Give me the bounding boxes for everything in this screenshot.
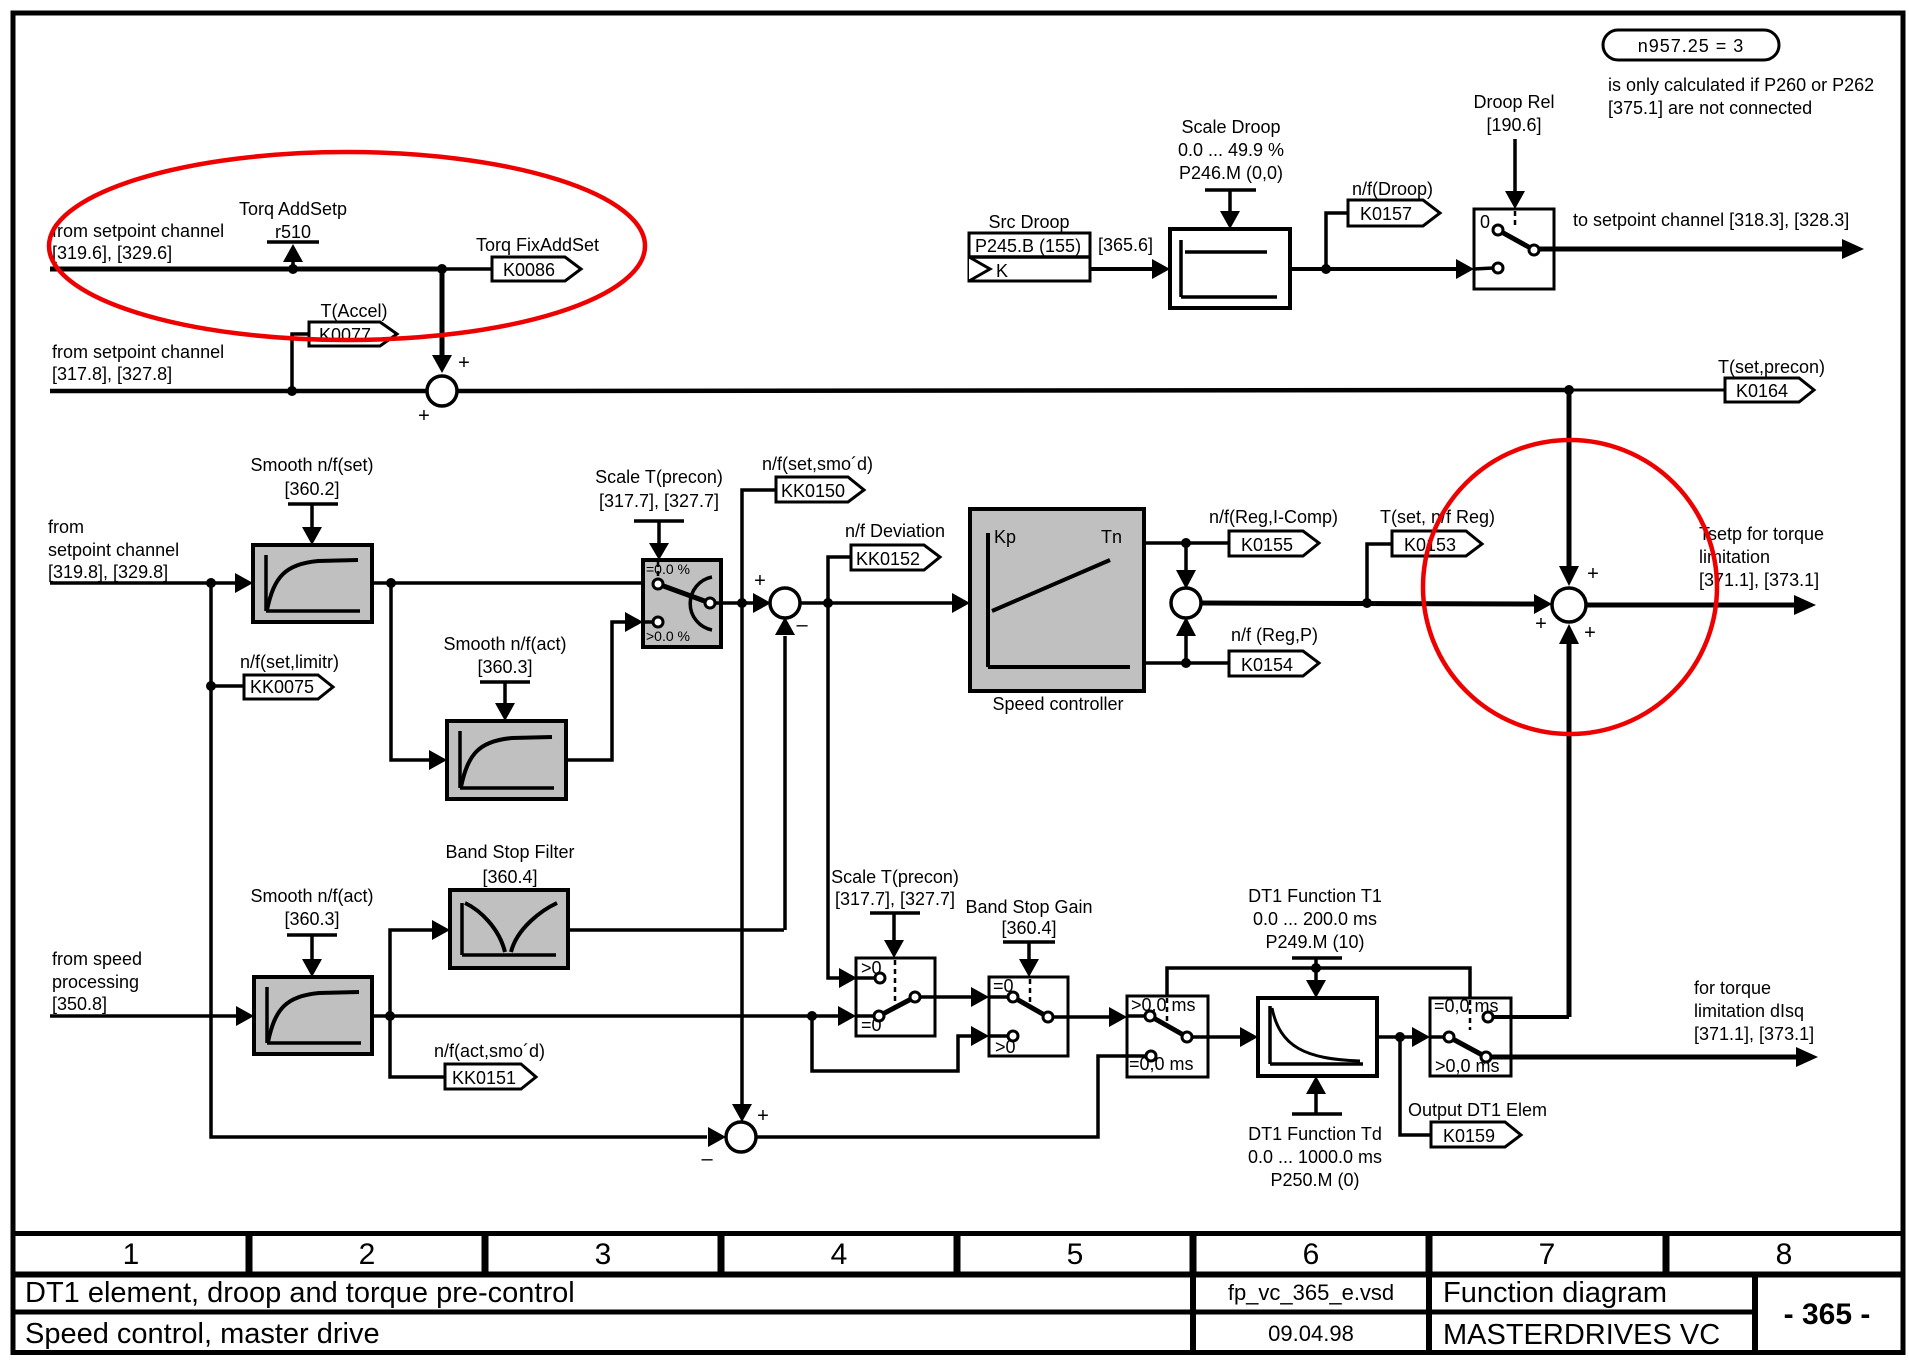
svg-text:7: 7 (1539, 1238, 1556, 1271)
switch DT1 output (1430, 998, 1511, 1076)
DROOP (969, 30, 1874, 308)
svg-text:K0086: K0086 (503, 260, 555, 280)
wire S5 output to DT1 switch (756, 1056, 1146, 1137)
svg-text:K0159: K0159 (1443, 1126, 1495, 1146)
svg-text:+: + (1535, 613, 1547, 635)
wire T(set,precon) into S4 top (1567, 390, 1572, 568)
svg-text:Torq AddSetp: Torq AddSetp (239, 199, 347, 219)
svg-text:KK0151: KK0151 (452, 1068, 516, 1088)
wire DT1 switch to DT1 block (1191, 1035, 1242, 1039)
node junction KK0152 tap (823, 598, 833, 608)
block Smooth n/f(set) (253, 545, 372, 622)
TOPLEFT (50, 199, 1825, 427)
svg-text:>0.0 %: >0.0 % (646, 628, 690, 644)
svg-text:Function diagram: Function diagram (1443, 1277, 1667, 1309)
wire torque precontrol line left (50, 389, 427, 394)
wire KK0150 vertical down to S5 (740, 603, 744, 1104)
node junction r510 tap (288, 264, 298, 274)
svg-text:[317.8], [327.8]: [317.8], [327.8] (52, 364, 172, 384)
svg-text:[371.1], [373.1]: [371.1], [373.1] (1694, 1024, 1814, 1044)
node junction DT1 T1 control (1311, 963, 1321, 973)
svg-text:MASTERDRIVES VC: MASTERDRIVES VC (1443, 1319, 1720, 1351)
svg-text:1: 1 (123, 1238, 140, 1271)
node junction KK0075 tap (206, 681, 216, 691)
wire left feedback vertical (211, 583, 707, 1137)
summing junction S4 (1552, 588, 1586, 622)
parameter box P245.B (155) (969, 233, 1090, 281)
svg-text:KK0152: KK0152 (856, 549, 920, 569)
wire lower branch into S3 (1184, 636, 1188, 663)
svg-text:8: 8 (1776, 1238, 1793, 1271)
svg-text:=0.0 %: =0.0 % (646, 561, 690, 577)
wire speed controller lower output (1144, 661, 1229, 665)
svg-text:n957.25 = 3: n957.25 = 3 (1638, 36, 1745, 56)
svg-text:n/f(Reg,I-Comp): n/f(Reg,I-Comp) (1209, 507, 1338, 527)
svg-text:[360.4]: [360.4] (482, 867, 537, 887)
wire K0077 tap (292, 334, 309, 391)
svg-text:P249.M (10): P249.M (10) (1265, 932, 1364, 952)
node junction KK0150 tap (737, 598, 747, 608)
svg-text:from speed: from speed (52, 949, 142, 969)
wire band stop output (568, 928, 784, 932)
svg-text:from setpoint channel: from setpoint channel (52, 221, 224, 241)
svg-text:setpoint channel: setpoint channel (48, 540, 179, 560)
summing junction S3 (1171, 588, 1201, 618)
svg-text:[319.6], [329.6]: [319.6], [329.6] (52, 243, 172, 263)
switch droop release (1474, 209, 1554, 289)
column separator 2/3 (482, 1233, 489, 1275)
svg-text:DT1 element, droop and torque: DT1 element, droop and torque pre-contro… (25, 1277, 575, 1309)
svg-text:0.0 ... 49.9 %: 0.0 ... 49.9 % (1178, 140, 1284, 160)
svg-text:limitation: limitation (1699, 547, 1770, 567)
svg-text:K0157: K0157 (1360, 204, 1412, 224)
svg-text:limitation dIsq: limitation dIsq (1694, 1001, 1804, 1021)
svg-text:P246.M (0,0): P246.M (0,0) (1179, 163, 1283, 183)
svg-text:DT1 Function Td: DT1 Function Td (1248, 1124, 1382, 1144)
svg-text:T(set,precon): T(set,precon) (1718, 357, 1825, 377)
svg-text:to setpoint channel [318.3], [: to setpoint channel [318.3], [328.3] (1573, 210, 1849, 230)
wire dIsq output (1490, 1055, 1798, 1060)
svg-text:n/f Deviation: n/f Deviation (845, 521, 945, 541)
wire dogleg to band stop gain switch (812, 1016, 973, 1071)
svg-text:>0,0 ms: >0,0 ms (1131, 995, 1196, 1015)
vertical separator page number cell (1752, 1275, 1758, 1352)
svg-text:DT1 Function T1: DT1 Function T1 (1248, 886, 1382, 906)
svg-text:+: + (754, 570, 766, 592)
red annotation circle (1423, 440, 1717, 734)
svg-text:K0154: K0154 (1241, 655, 1293, 675)
svg-text:P250.M (0): P250.M (0) (1270, 1170, 1359, 1190)
wire DT1 block output (1377, 1035, 1414, 1039)
wire S2 output to speed controller (799, 601, 952, 605)
node junction K0077 tap (287, 386, 297, 396)
svg-text:Torq FixAddSet: Torq FixAddSet (476, 235, 599, 255)
svg-text:[319.8], [329.8]: [319.8], [329.8] (48, 562, 168, 582)
svg-text:[360.3]: [360.3] (284, 909, 339, 929)
vertical separator filename cell (1190, 1275, 1196, 1352)
column separator 1/2 (246, 1233, 253, 1275)
svg-text:K0164: K0164 (1736, 381, 1788, 401)
svg-text:- 365 -: - 365 - (1784, 1298, 1871, 1331)
svg-text:0.0 ... 1000.0 ms: 0.0 ... 1000.0 ms (1248, 1147, 1382, 1167)
svg-text:n/f(set,smo´d): n/f(set,smo´d) (762, 454, 873, 474)
wire DT1 path into S4 bottom (1567, 642, 1572, 1017)
svg-text:KK0075: KK0075 (250, 677, 314, 697)
svg-text:Scale T(precon): Scale T(precon) (831, 867, 959, 887)
column separator 6/7 (1426, 1233, 1433, 1275)
svg-text:0.0 ... 200.0 ms: 0.0 ... 200.0 ms (1253, 909, 1377, 929)
svg-text:4: 4 (831, 1238, 848, 1271)
block droop characteristic (1170, 229, 1290, 308)
wire speed actual input (50, 1014, 238, 1018)
svg-text:3: 3 (595, 1238, 612, 1271)
wire to K0159 (1400, 1037, 1431, 1135)
wire branch to KK0151 (390, 1016, 445, 1077)
wire torque precontrol line right (457, 390, 1569, 391)
vertical separator function diagram cell (1426, 1275, 1432, 1352)
summing junction S5 (726, 1122, 756, 1152)
node junction K0153 tap (1362, 598, 1372, 608)
wire smooth act output (372, 1014, 843, 1018)
title block top line (13, 1231, 1903, 1236)
summing junction S1 (427, 376, 457, 406)
wire branch down to smooth nf(act) (391, 583, 431, 760)
block Smooth n/f(act) lower (254, 977, 372, 1054)
wire to KK0075 (211, 684, 244, 688)
column separator 3/4 (718, 1233, 725, 1275)
svg-text:[360.3]: [360.3] (477, 657, 532, 677)
node junction T(set,precon) (1564, 385, 1574, 395)
svg-text:2: 2 (359, 1238, 376, 1271)
FOOTER TABLE (13, 1233, 1903, 1352)
block Smooth n/f(act) upper (447, 721, 566, 799)
svg-text:–: – (701, 1148, 713, 1170)
svg-text:fp_vc_365_e.vsd: fp_vc_365_e.vsd (1228, 1280, 1394, 1305)
svg-text:Smooth n/f(act): Smooth n/f(act) (250, 886, 373, 906)
svg-text:+: + (1587, 563, 1599, 585)
wire smooth nf(act) to switch lower input (566, 622, 627, 760)
wire upper branch into S3 (1184, 543, 1188, 571)
wire to KK0150 (742, 490, 776, 603)
svg-text:K0155: K0155 (1241, 535, 1293, 555)
node junction smooth output (386, 578, 396, 588)
wire to K0086 (442, 267, 492, 271)
svg-text:is only calculated if P260 or: is only calculated if P260 or P262 (1608, 75, 1874, 95)
svg-text:6: 6 (1303, 1238, 1320, 1271)
svg-text:from: from (48, 517, 84, 537)
svg-text:09.04.98: 09.04.98 (1268, 1321, 1354, 1346)
wire switch output to summing junction S2 (714, 601, 753, 605)
svg-text:Output DT1 Elem: Output DT1 Elem (1408, 1100, 1547, 1120)
switch Band Stop Gain (989, 977, 1068, 1056)
svg-text:5: 5 (1067, 1238, 1084, 1271)
wire to KK0152 (828, 557, 851, 603)
svg-text:0: 0 (1480, 212, 1490, 232)
node junction K0157 tap (1321, 264, 1331, 274)
svg-text:Tn: Tn (1101, 527, 1122, 547)
wire band stop feedback into S2 minus (783, 636, 787, 930)
svg-text:KK0150: KK0150 (781, 481, 845, 501)
svg-text:+: + (757, 1105, 769, 1127)
svg-text:Smooth n/f(set): Smooth n/f(set) (250, 455, 373, 475)
wire smooth nf(set) output (372, 581, 654, 585)
svg-text:Speed controller: Speed controller (992, 694, 1123, 714)
column separator 5/6 (1190, 1233, 1197, 1275)
svg-text:Speed control, master drive: Speed control, master drive (25, 1318, 380, 1350)
red annotation ellipse (49, 152, 645, 340)
svg-text:Band Stop Filter: Band Stop Filter (445, 842, 574, 862)
svg-text:[360.2]: [360.2] (284, 479, 339, 499)
node junction band stop tap (385, 1011, 395, 1021)
svg-text:for torque: for torque (1694, 978, 1771, 998)
svg-text:[365.6]: [365.6] (1098, 235, 1153, 255)
node junction K0159 tap (1395, 1032, 1405, 1042)
svg-text:[375.1] are not connected: [375.1] are not connected (1608, 98, 1812, 118)
MIDDLE (48, 390, 1824, 1137)
wire DT1 switch control link (1167, 968, 1470, 998)
svg-text:processing: processing (52, 972, 139, 992)
note n957.25 = 3 (1603, 30, 1779, 60)
wire scale switch output (920, 995, 973, 999)
wire S4 output Tsetp (1586, 603, 1796, 608)
svg-text:n/f(act,smo´d): n/f(act,smo´d) (434, 1041, 545, 1061)
wire DT1 bypass up to S4 (1492, 1015, 1569, 1019)
svg-text:–: – (796, 614, 808, 636)
wire droop switch output (1538, 247, 1844, 252)
svg-text:+: + (1584, 622, 1596, 644)
svg-text:[317.7], [327.7]: [317.7], [327.7] (835, 889, 955, 909)
summing junction S2 (770, 588, 800, 618)
svg-text:Src Droop: Src Droop (988, 212, 1069, 232)
svg-text:from setpoint channel: from setpoint channel (52, 342, 224, 362)
node junction lower output (1181, 658, 1191, 668)
svg-text:K: K (996, 261, 1008, 281)
node junction upper output (1181, 538, 1191, 548)
block speed controller (970, 509, 1144, 691)
switch Scale T(precon) upper (643, 560, 721, 647)
column separator 7/8 (1663, 1233, 1670, 1275)
svg-text:Scale T(precon): Scale T(precon) (595, 467, 723, 487)
svg-text:Tsetp for torque: Tsetp for torque (1699, 524, 1824, 544)
wire band stop gain output (1052, 1015, 1111, 1019)
node junction act line taps (807, 1011, 817, 1021)
block Band Stop Filter (450, 890, 568, 968)
svg-text:[350.8]: [350.8] (52, 994, 107, 1014)
svg-text:[190.6]: [190.6] (1486, 115, 1541, 135)
wire S3 output to S4 (1200, 603, 1534, 604)
svg-text:+: + (418, 405, 430, 427)
wire down to summing junction S1 (440, 269, 445, 356)
wire speed controller upper output (1144, 541, 1229, 545)
svg-text:Band Stop Gain: Band Stop Gain (965, 897, 1092, 917)
wire droop block to switch (1290, 267, 1458, 271)
switch Scale T(precon) lower (856, 958, 935, 1036)
wire to K0164 (1569, 389, 1725, 392)
svg-text:+: + (458, 352, 470, 374)
svg-text:n/f (Reg,P): n/f (Reg,P) (1231, 625, 1318, 645)
node junction K0086 branch (437, 264, 447, 274)
svg-text:Droop Rel: Droop Rel (1473, 92, 1554, 112)
parameter DT1 Function Td P250 (1306, 1076, 1326, 1094)
svg-text:P245.B (155): P245.B (155) (975, 236, 1081, 256)
svg-text:r510: r510 (275, 222, 311, 242)
node junction setpoint feedback tap (206, 578, 216, 588)
wire to K0153 (1367, 544, 1392, 603)
wire act line arrow into scale switch (838, 1006, 856, 1026)
svg-text:T(Accel): T(Accel) (321, 301, 388, 321)
REDMARKS (49, 152, 1717, 734)
svg-text:Kp: Kp (994, 527, 1016, 547)
svg-text:Smooth n/f(act): Smooth n/f(act) (443, 634, 566, 654)
block DT1 element (1258, 998, 1377, 1076)
wire P245 to droop block (1090, 267, 1154, 271)
svg-text:n/f(Droop): n/f(Droop) (1352, 179, 1433, 199)
title block row separator line 2 (13, 1310, 1755, 1315)
column separator 4/5 (954, 1233, 961, 1275)
switch DT1 input (1127, 996, 1208, 1077)
BOTTOM (50, 842, 1818, 1190)
wire KK0152 branch down to scale switch (828, 603, 843, 978)
wire branch to band stop filter (390, 930, 434, 1016)
wire setpoint input to smooth block (50, 581, 237, 585)
title block row separator line 1 (13, 1272, 1903, 1278)
svg-text:[317.7], [327.7]: [317.7], [327.7] (599, 491, 719, 511)
wire to K0157 (1326, 213, 1348, 269)
svg-text:[360.4]: [360.4] (1001, 918, 1056, 938)
wire torque add setpoint line (50, 267, 442, 272)
svg-text:Scale Droop: Scale Droop (1181, 117, 1280, 137)
svg-text:n/f(set,limitr): n/f(set,limitr) (240, 652, 339, 672)
